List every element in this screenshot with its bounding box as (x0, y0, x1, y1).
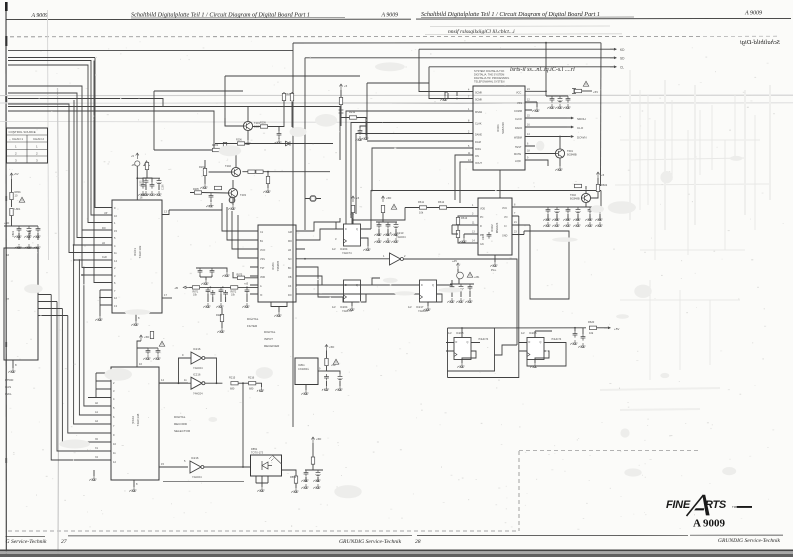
flip-flop IC204b (332, 280, 372, 313)
svg-text:+5V: +5V (593, 90, 598, 94)
top pin + supply (136, 360, 138, 367)
svg-text:+5D: +5D (144, 335, 149, 339)
svg-text:GRUNDIG Service-Technik: GRUNDIG Service-Technik (339, 539, 402, 545)
ferrite L801 (10, 208, 13, 215)
wires below forming loop (527, 343, 566, 367)
svg-text:D: D (421, 284, 423, 287)
svg-text:DO: DO (102, 227, 106, 230)
svg-text:INKL: INKL (5, 392, 12, 396)
dashed border bottom-left page (8, 530, 519, 532)
wire IC3 lower pins to ff2 (305, 276, 336, 285)
resistor R204 vertical pair (223, 142, 226, 149)
svg-text:+d5: +d5 (452, 259, 457, 263)
svg-text:VCO: VCO (260, 249, 265, 252)
grounds (14, 233, 21, 238)
svg-text:ON: ON (475, 155, 479, 158)
svg-text:BC: BC (288, 267, 292, 270)
input wires from IC3 (305, 284, 412, 286)
svg-text:Schaltbild Digitalplatte Teil: Schaltbild Digitalplatte Teil 1 / Circui… (131, 12, 310, 19)
svg-text:R: R (480, 225, 482, 228)
wire staircase vertical x=83.9 (84, 268, 111, 407)
svg-text:CLO: CLO (577, 126, 584, 130)
wire y=91 from x=154 (154, 91, 243, 150)
IC IC101 74HC193 (95, 196, 172, 326)
wire collector T201 (247, 107, 249, 122)
resistor R201 (212, 148, 219, 151)
ferrite bead L602 (457, 272, 464, 279)
+5V arrow (456, 263, 459, 269)
wire bus h y=57.5 (8, 58, 112, 208)
svg-text:MSAN: MSAN (475, 111, 482, 114)
svg-text:SAA7220: SAA7220 (501, 122, 505, 134)
capacitor C852 (316, 470, 321, 477)
svg-text:27: 27 (61, 539, 67, 545)
resistor R214 small pair (214, 186, 221, 189)
warning triangle (19, 197, 25, 202)
svg-text:VSS: VSS (517, 102, 522, 105)
resistor R212 (349, 116, 356, 119)
capacitor C625 (588, 207, 593, 214)
wire staircase vertical x=79.4 (79, 260, 111, 415)
svg-text:R620: R620 (588, 320, 595, 324)
svg-text:/74HC74: /74HC74 (478, 337, 489, 341)
zener D211 (339, 110, 344, 116)
capacitor C802 (27, 226, 32, 233)
svg-text:PLL: PLL (491, 268, 497, 272)
warning triangle (333, 359, 339, 364)
svg-text:+5D: +5D (331, 364, 336, 367)
svg-text:74HC138: 74HC138 (136, 413, 140, 426)
svg-text:+d5: +d5 (244, 283, 249, 286)
transistor T602 + resistor (570, 172, 608, 208)
resistor R206 (237, 142, 244, 145)
capacitor C110 (146, 348, 151, 355)
capacitor C603 (566, 96, 571, 103)
transistor T202 (231, 167, 240, 176)
svg-text:R801: R801 (15, 190, 22, 194)
svg-text:IC601: IC601 (496, 124, 500, 132)
bottom pin + ground (133, 480, 135, 487)
svg-text:R205: R205 (193, 188, 199, 191)
left feed verticals (222, 203, 250, 231)
footer rule left page (6, 535, 784, 536)
svg-text:IC216: IC216 (193, 347, 201, 351)
svg-text:CL: CL (620, 66, 624, 70)
svg-text:GN: GN (480, 243, 484, 246)
wire staircase vertical x=67.8 (68, 316, 111, 434)
wire staircase vertical x=62.4 (62, 309, 111, 443)
crystal XT201 (305, 195, 321, 201)
svg-text:VCC: VCC (502, 207, 507, 210)
svg-text:Q: Q (540, 341, 542, 344)
svg-text:IC217: IC217 (416, 305, 424, 309)
svg-text:R216: R216 (248, 376, 255, 380)
terminal arrow KD (610, 48, 617, 50)
svg-text:VCC: VCC (516, 91, 521, 94)
svg-text:A 9009: A 9009 (693, 517, 726, 529)
svg-text:R602: R602 (601, 183, 608, 187)
flip-flop IC208b (519, 331, 566, 368)
terminal arrow SD (610, 57, 617, 59)
svg-text:+5V: +5V (14, 172, 19, 176)
capacitor C622 (555, 207, 560, 214)
wire bus h y=93 (8, 93, 112, 238)
inverter IC216a (178, 347, 218, 384)
wire IC3 pin to FF1 D (305, 229, 336, 240)
bottom pin + ground (494, 255, 496, 262)
DIGITAL RECORD SELECTOR caption (174, 415, 191, 433)
capacitor C876 (210, 268, 215, 275)
svg-text:R209: R209 (260, 122, 266, 125)
svg-text:CX23034: CX23034 (298, 367, 309, 371)
resistor R208 vertical (290, 93, 293, 100)
svg-text:+d51: +d51 (474, 276, 480, 279)
svg-text:LT500: LT500 (5, 378, 14, 382)
resistor R613 vertical (456, 217, 459, 224)
resistor R872 (231, 286, 238, 289)
inverter IC216b (159, 373, 222, 396)
svg-text:IC811: IC811 (298, 363, 305, 367)
wire staircase vertical x=57 (57, 302, 111, 452)
capacitor C205 (277, 131, 282, 138)
svg-text:Schaltbild-Digi: Schaltbild-Digi (740, 39, 780, 46)
capacitor C111 (156, 348, 161, 355)
wire gray long y=481 (163, 481, 244, 483)
capacitor C610 under left (487, 232, 492, 239)
resistor R205 (194, 191, 201, 194)
capacitor C641 (450, 284, 455, 291)
svg-text:IC208: IC208 (529, 331, 537, 335)
coax input chain to IC3 (174, 283, 258, 308)
scan artifact gray bands (0, 94, 793, 96)
resistor R215 (231, 382, 238, 385)
svg-text:BC848B: BC848B (567, 153, 577, 157)
wire + ground after R216 (256, 383, 262, 387)
ferrite bead L101 (135, 161, 140, 166)
capacitor C642 (459, 284, 464, 291)
svg-text:TELEFONWAHL SYSTEM: TELEFONWAHL SYSTEM (474, 80, 505, 84)
capacitor C232 (386, 222, 391, 229)
terminal arrow CL (610, 66, 617, 68)
svg-text:+5: +5 (601, 173, 605, 177)
right pin to inverter B (159, 382, 188, 384)
warning triangle (391, 204, 397, 209)
svg-text:R613: R613 (461, 216, 468, 220)
capacitor C202 (150, 182, 155, 189)
svg-text:74HC74: 74HC74 (342, 251, 352, 255)
IC IC602 PLL (470, 198, 601, 272)
capacitor C643 (468, 284, 473, 291)
terminal arrow +5V (604, 327, 611, 329)
svg-text:C610: C610 (482, 234, 485, 240)
svg-text:lsrts-il ss...nl..iq.iC-s.l ..: lsrts-il ss...nl..iq.iC-s.l ....rl (510, 67, 575, 73)
svg-text:IC213: IC213 (396, 231, 404, 235)
svg-text:C106: C106 (163, 184, 165, 190)
svg-text:CAS: CAS (5, 385, 11, 389)
svg-text:IC204: IC204 (340, 247, 348, 251)
resistor R851 (294, 476, 297, 483)
svg-text:DGM: DGM (475, 141, 481, 144)
wire staircase vertical x=51.2 (51, 295, 111, 461)
svg-text:VDD: VDD (480, 208, 485, 211)
svg-text:FILTER: FILTER (247, 324, 258, 328)
wire from IC1 pin13 to IC3 (169, 203, 222, 210)
resistor R871 (190, 286, 193, 288)
svg-text:R851: R851 (290, 475, 297, 479)
+5V arrow (325, 345, 328, 351)
svg-text:FINE: FINE (666, 499, 691, 511)
capacitor C812 (338, 374, 343, 381)
grounds (143, 355, 150, 360)
svg-text:+5D: +5D (386, 196, 391, 200)
svg-text:+5V: +5V (614, 327, 619, 331)
svg-text:Q: Q (356, 284, 358, 287)
ground left bottom (93, 470, 95, 476)
svg-text:VDD: VDD (260, 276, 265, 279)
svg-text:YM3805: YM3805 (276, 260, 280, 271)
svg-text:680: 680 (249, 387, 254, 391)
capacitor C201 (141, 182, 146, 189)
header rule both pages (6, 18, 791, 19)
wire short stubs IC2 upper pins (88, 373, 111, 398)
svg-text:+5D: +5D (329, 345, 334, 349)
wire FF1 extra top (335, 222, 337, 229)
svg-text:CI: CI (504, 225, 507, 228)
svg-text:DIGITAL: DIGITAL (264, 330, 276, 334)
svg-text:IC201: IC201 (271, 262, 275, 270)
svg-text:Q: Q (432, 284, 434, 287)
capacitor C233 (394, 222, 399, 229)
dashed border right page y=450 (519, 450, 700, 452)
right pin to IC3 (162, 210, 169, 215)
svg-text:CLKO: CLKO (515, 118, 522, 121)
svg-text:07: 07 (6, 297, 10, 301)
wire T202 collector (154, 150, 236, 167)
resistor R231 (351, 205, 354, 212)
svg-text:SDOH: SDOH (577, 117, 586, 121)
svg-text:74HC04: 74HC04 (193, 366, 203, 370)
opto transmitter TOTX173 (251, 447, 299, 493)
svg-text:CHAN 2: CHAN 2 (33, 137, 44, 141)
junction + drop wire to TOTX input (242, 382, 244, 384)
input wire from IC3 (305, 258, 390, 260)
svg-text:COMM: COMM (514, 110, 522, 113)
svg-text:SCMK: SCMK (475, 99, 483, 102)
svg-text:1/2: 1/2 (408, 305, 412, 309)
double resistor R210 after T202 (248, 170, 255, 173)
transistor T201 (243, 121, 252, 130)
svg-text:16: 16 (6, 253, 10, 257)
capacitor C602 (558, 96, 563, 103)
wire y=106 box (8, 107, 340, 161)
svg-text:Q: Q (356, 228, 358, 231)
wire loop box right of IC602 (524, 225, 569, 299)
capacitor C621 (546, 207, 551, 214)
wire vertical x=69 (8, 104, 112, 253)
svg-text:1/2: 1/2 (332, 305, 336, 309)
wire y=76 from x=225 (225, 76, 360, 126)
wire: horizontal y=43 to right trunk (293, 42, 601, 44)
ground at IC1 lower-left (99, 312, 101, 316)
transistor D601 (572, 89, 576, 94)
svg-text:G Service-Technik: G Service-Technik (6, 539, 47, 545)
svg-text:TST: TST (260, 267, 265, 270)
resistor R612 (439, 206, 446, 209)
wire (11, 179, 13, 207)
wire FF2 output loop (372, 278, 380, 285)
svg-text:DIGITAL/A.TR. PROCESSING: DIGITAL/A.TR. PROCESSING (474, 76, 509, 80)
resistor R875 (237, 276, 244, 279)
svg-text:PC: PC (480, 216, 484, 219)
svg-text:T601: T601 (567, 149, 573, 153)
capacitor C630 (573, 331, 578, 338)
+5V arrow (381, 196, 384, 202)
svg-text:IC208: IC208 (456, 331, 464, 335)
svg-text:DANE: DANE (475, 134, 482, 137)
svg-text:SELECTOR: SELECTOR (174, 429, 191, 433)
resistor R202 (203, 168, 206, 175)
digital filter caption (247, 317, 259, 328)
capacitor C105 (144, 178, 149, 185)
resistor R207 vertical (282, 93, 285, 100)
Q wire up and right (371, 191, 601, 230)
svg-text:+5: +5 (356, 196, 360, 200)
bottom notch + ground (271, 302, 287, 312)
warning triangle (144, 161, 150, 166)
svg-text:RECEIVER: RECEIVER (264, 344, 280, 348)
capacitor C871 (206, 287, 211, 294)
wire bus h y=65 (8, 65, 112, 223)
VCC filter cluster top-right of IC601 (545, 81, 598, 108)
svg-text:UP: UP (104, 212, 108, 215)
+5V filter near TOTX (301, 437, 323, 489)
svg-text:+5D: +5D (4, 221, 9, 225)
resistor R213 drop (266, 176, 269, 183)
wire vertical x=74 (74, 100, 112, 245)
wire y=327.8 to +5 terminal (448, 327, 587, 329)
VSS ground (536, 102, 538, 107)
svg-text:MO: MO (288, 240, 292, 243)
flip-flop IC217a (305, 280, 446, 313)
wire: vertical x=293 trunk (292, 43, 294, 427)
svg-text:A 9009: A 9009 (381, 13, 399, 19)
resistor R603 (574, 184, 581, 187)
svg-text:10k: 10k (589, 331, 594, 335)
+5V arrow (596, 172, 599, 178)
resistor R611 (419, 206, 426, 209)
wire vertical x=244 down (242, 383, 244, 467)
wire: vertical x=601 right trunk (600, 43, 603, 186)
resistor R811 (325, 358, 328, 365)
wire (215, 143, 333, 145)
svg-text:IC102: IC102 (131, 416, 135, 424)
wire IC3 pin up right (305, 218, 340, 231)
svg-text:IC204: IC204 (340, 305, 348, 309)
svg-text:SD: SD (620, 57, 625, 61)
svg-text:Q: Q (467, 341, 469, 344)
+5V arrow (351, 196, 354, 202)
svg-text:CK: CK (288, 285, 292, 288)
right pin (318, 370, 327, 372)
left pins (470, 208, 478, 244)
RC row feeding IC3 pin VDD (196, 268, 258, 285)
capacitor C803 (36, 226, 41, 233)
wire IC601 bottom to IC602 top (499, 170, 501, 198)
terminal arrow DOWN (567, 135, 574, 137)
wire FF3 to right (446, 280, 452, 285)
enclosing wire rectangle (448, 328, 495, 371)
+5V arrow (311, 437, 314, 443)
+5V arrow (136, 153, 139, 159)
warning triangle (467, 272, 473, 277)
transistor T601 (555, 136, 577, 171)
wire vertical x=94 (94, 61, 112, 283)
right pins (512, 207, 601, 235)
wire base T202 (205, 160, 231, 184)
capacitor C624 (576, 207, 581, 214)
bottom pin + ground (135, 313, 137, 321)
svg-text:INPUT: INPUT (264, 337, 273, 341)
left stub grounds for SCMK (457, 92, 466, 99)
svg-text:DIGITAL: DIGITAL (174, 415, 186, 419)
svg-text:C105: C105 (141, 180, 143, 186)
svg-text:WSBM: WSBM (514, 137, 522, 140)
resistor R801 (10, 192, 13, 199)
svg-text:-d5: -d5 (131, 164, 135, 167)
svg-text:DIGITAL/A. THE SYSTEM: DIGITAL/A. THE SYSTEM (474, 73, 504, 77)
svg-text:74HC193: 74HC193 (138, 245, 142, 258)
inverter IC213 (304, 231, 517, 345)
svg-text:XI: XI (260, 294, 263, 297)
DIGITAL INPUT RECEIVER caption (264, 330, 280, 348)
svg-text:GND: GND (502, 235, 508, 238)
warning triangle (583, 81, 589, 86)
svg-text:10k: 10k (419, 211, 424, 215)
svg-text:DADO: DADO (515, 127, 522, 130)
IC IC201 (digital decoder) (169, 197, 305, 333)
dashed border vertical x=519 (518, 451, 520, 531)
svg-text:CONTROL SOURCE: CONTROL SOURCE (9, 130, 36, 134)
svg-text:74HC04: 74HC04 (192, 475, 202, 479)
flip-flop IC204a (332, 191, 601, 256)
right pin (282, 470, 297, 476)
svg-text:28: 28 (415, 539, 421, 545)
wire from IC1 pin16 up (137, 166, 160, 200)
+5V filter cluster below IC602 (447, 259, 480, 303)
capacitor C106 (157, 178, 162, 185)
capacitor C623 (566, 207, 571, 214)
wire y=111 (8, 111, 214, 152)
resistor R852 (311, 457, 314, 464)
wire: arrow net y=49 (419, 49, 613, 91)
svg-text:SYSTEM: DIGITAL/A.TCK: SYSTEM: DIGITAL/A.TCK (474, 69, 505, 73)
svg-text:SCMK: SCMK (475, 92, 483, 95)
left pin stubs (250, 231, 258, 294)
wire bus h y=86 (8, 86, 112, 230)
transistor T203 (228, 188, 237, 197)
ground (361, 135, 368, 140)
svg-text:MUTE: MUTE (514, 153, 521, 156)
svg-text:LR: LR (288, 249, 291, 252)
svg-text:TM: TM (732, 505, 737, 509)
svg-text:TEST: TEST (515, 146, 522, 149)
pin stubs right (38, 295, 68, 316)
wire: long horizontal y=50 from left edge (8, 49, 293, 51)
svg-text:A 9009: A 9009 (744, 11, 762, 17)
wire T203 (232, 180, 234, 205)
svg-text:TOTX-173: TOTX-173 (251, 451, 264, 455)
svg-text:R612: R612 (438, 200, 445, 204)
